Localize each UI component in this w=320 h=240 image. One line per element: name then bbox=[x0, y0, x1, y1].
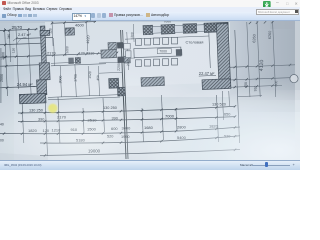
zoom label bbox=[240, 163, 253, 167]
bottom dimension chain lines (slight barrel curve) bbox=[18, 106, 235, 113]
curve ticks bbox=[21, 112, 23, 114]
door swing arc upper-left room bbox=[17, 37, 27, 44]
small white box next to piers bbox=[124, 43, 130, 49]
right wall foot bbox=[202, 79, 231, 90]
pier at wall pair bottom bbox=[118, 87, 126, 96]
underline for 24.94 bbox=[17, 86, 36, 89]
left wall upper bbox=[40, 26, 46, 63]
ticks at top of right chains bbox=[249, 22, 251, 24]
black column piers bbox=[117, 42, 124, 48]
slider track bbox=[252, 165, 290, 166]
toolbar browse button bbox=[2, 14, 6, 18]
left wall mid bbox=[39, 63, 50, 80]
menu bar bbox=[0, 7, 300, 13]
mid T-wall stub bbox=[108, 42, 117, 50]
underline for 22.47 bbox=[199, 74, 216, 77]
right wall vertical bbox=[216, 24, 230, 80]
window title bbox=[8, 1, 39, 5]
tooltip overlay top right bbox=[256, 9, 299, 15]
global blue tint bbox=[0, 19, 300, 160]
blueprint paper background bbox=[0, 19, 300, 160]
chairs top row bbox=[136, 39, 142, 46]
top small wall segment bbox=[65, 28, 75, 36]
ticks on left vertical chain bbox=[4, 29, 6, 31]
zoom plus bbox=[293, 162, 295, 167]
mid lower wall band bbox=[141, 77, 164, 86]
chairs bottom row bbox=[136, 60, 142, 67]
window openings in top band bbox=[153, 26, 162, 33]
mid T-wall bar bbox=[101, 50, 117, 59]
left wall lower bbox=[37, 80, 47, 95]
title bar bbox=[0, 0, 300, 7]
filename status text bbox=[4, 163, 41, 167]
top wall band seg2 bbox=[161, 24, 175, 34]
autocorrect button bbox=[146, 13, 150, 17]
close button bbox=[295, 1, 298, 6]
yellow cursor highlight bbox=[48, 104, 57, 113]
toolbar bbox=[0, 12, 300, 21]
maximize button bbox=[286, 1, 288, 6]
top wall band seg4 bbox=[204, 22, 228, 32]
chair at table end bbox=[126, 51, 131, 58]
zoom combo box bbox=[72, 13, 91, 20]
mid square pier bbox=[109, 78, 119, 88]
top wall band seg1 bbox=[143, 25, 153, 35]
dining table bbox=[134, 47, 181, 58]
ticks on mid dim line y57 bbox=[4, 56, 6, 58]
green download icon bbox=[263, 1, 271, 9]
small pier block bbox=[124, 56, 130, 63]
toolbar small icons bbox=[18, 14, 22, 18]
zoom tool icons bbox=[91, 13, 95, 17]
photo edge streak left bbox=[0, 48, 2, 103]
left wall top arm bbox=[40, 30, 50, 35]
main drawing canvas bbox=[0, 0, 300, 169]
photo edge shadow bottom-left bbox=[0, 153, 48, 160]
slider thumb bbox=[265, 162, 268, 167]
app icon bbox=[2, 1, 6, 5]
left wall foot block bbox=[19, 94, 46, 104]
dimension callout box on table bbox=[157, 48, 171, 53]
leader line bbox=[13, 37, 18, 41]
edit pictures button bbox=[109, 13, 113, 17]
glare wash overlays bbox=[0, 19, 300, 160]
axis grid bubble bbox=[290, 75, 298, 83]
small dark door blocks bbox=[68, 58, 74, 64]
minimize button bbox=[276, 0, 279, 6]
top wall band seg3 bbox=[183, 24, 197, 34]
status bar bbox=[0, 160, 300, 170]
thin wall and dimension lines bbox=[5, 28, 8, 96]
